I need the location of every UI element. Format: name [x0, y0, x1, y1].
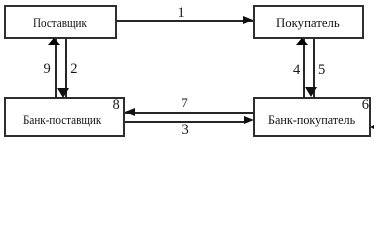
box Банк-покупатель (buyer bank) [253, 97, 371, 137]
box Банк-поставщик (supplier bank) [4, 97, 125, 137]
label 9 [44, 64, 51, 74]
box Поставщик (supplier) [4, 5, 117, 39]
arrowhead 9 up [48, 38, 60, 45]
wire 3 (Банк-поставщик to Банк-покупатель) [125, 121, 246, 123]
label 7 [181, 98, 188, 108]
label 8 (in box corner) [113, 100, 120, 110]
arrowhead 3 right [244, 116, 254, 124]
wire 9 (up line left pair) [55, 39, 57, 98]
arrowhead 7 left [125, 108, 135, 116]
wire 4 (up line right pair) [303, 39, 305, 98]
label 4 [293, 65, 300, 75]
label Покупатель [276, 16, 340, 29]
label 2 [70, 64, 77, 74]
label 5 [318, 65, 325, 75]
label Поставщик [33, 16, 87, 29]
label Банк-покупатель [268, 113, 355, 126]
arrowhead 2 down [57, 88, 69, 98]
wire 5 (down line right pair) [313, 39, 315, 98]
wire 2 (down line left pair) [65, 39, 67, 98]
label 6 (in box corner) [362, 100, 369, 110]
wire 7 (Банк-покупатель to Банк-поставщик) [125, 112, 254, 114]
label Банк-поставщик [23, 113, 101, 126]
arrowhead 5 down [305, 87, 317, 97]
arrowhead 4 up [296, 38, 308, 45]
wire 1 (Поставщик to Покупатель) [117, 20, 253, 22]
arrowhead stub at right edge of Банк-покупатель [370, 125, 374, 129]
box Покупатель (buyer) [253, 5, 364, 39]
arrowhead 1 right [243, 16, 253, 24]
label 3 [182, 125, 189, 135]
label 1 [178, 8, 185, 18]
